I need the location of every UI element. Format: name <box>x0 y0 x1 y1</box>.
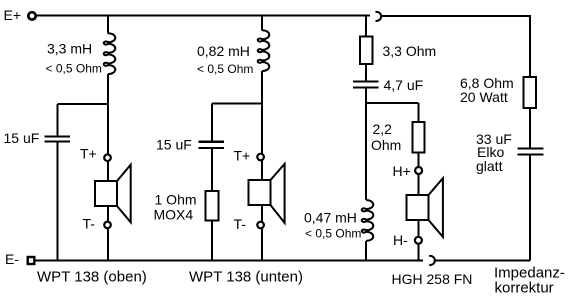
svg-text:glatt: glatt <box>476 158 503 174</box>
svg-text:WPT 138 (unten): WPT 138 (unten) <box>189 269 303 286</box>
svg-text:< 0,5 Ohm: < 0,5 Ohm <box>197 62 253 76</box>
svg-text:WPT 138 (oben): WPT 138 (oben) <box>37 269 147 286</box>
svg-text:< 0,5 Ohm: < 0,5 Ohm <box>305 227 361 241</box>
svg-text:4,7 uF: 4,7 uF <box>384 77 424 93</box>
svg-text:H+: H+ <box>393 163 411 179</box>
svg-text:Ohm: Ohm <box>371 137 401 153</box>
svg-text:korrektur: korrektur <box>495 279 554 296</box>
svg-text:0,82 mH: 0,82 mH <box>197 43 250 59</box>
svg-text:T+: T+ <box>80 146 97 162</box>
svg-text:T+: T+ <box>234 147 251 163</box>
svg-text:T-: T- <box>83 215 96 231</box>
svg-text:HGH 258 FN: HGH 258 FN <box>392 271 473 287</box>
svg-text:15 uF: 15 uF <box>4 130 40 146</box>
svg-text:< 0,5 Ohm: < 0,5 Ohm <box>46 61 102 75</box>
svg-text:E-: E- <box>5 251 19 267</box>
svg-text:T-: T- <box>234 216 247 232</box>
svg-text:3,3 mH: 3,3 mH <box>47 41 92 57</box>
svg-text:0,47 mH: 0,47 mH <box>304 209 357 225</box>
svg-text:MOX4: MOX4 <box>154 207 194 223</box>
svg-text:H-: H- <box>393 232 408 248</box>
svg-text:E+: E+ <box>4 7 22 23</box>
svg-text:15 uF: 15 uF <box>156 136 192 152</box>
svg-text:2,2: 2,2 <box>373 121 393 137</box>
svg-text:20 Watt: 20 Watt <box>460 89 508 105</box>
svg-text:3,3 Ohm: 3,3 Ohm <box>383 43 437 59</box>
svg-text:1 Ohm: 1 Ohm <box>155 192 197 208</box>
